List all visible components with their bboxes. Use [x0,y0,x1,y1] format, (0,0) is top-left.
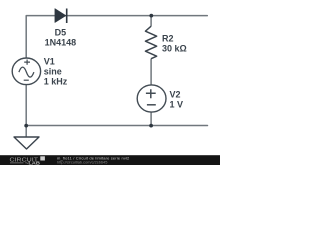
wire V2 bottom stem [150,112,152,126]
svg-text:30 kΩ: 30 kΩ [162,43,187,53]
voltage source V2 (DC) [137,85,166,112]
wire top rail with corner down to V1 top [26,16,207,58]
wire R2 to V2 stem [150,59,152,85]
wire V1 bottom stem to ground [25,85,27,138]
node junction bottom rail / V1-ground [24,124,28,128]
node junction top rail / R2 [149,14,153,18]
resistor R2 [145,26,156,59]
wire bottom rail [26,125,207,127]
svg-text:V1: V1 [44,57,55,67]
svg-text:http://circuitlab.com/c/2sb645: http://circuitlab.com/c/2sb645 [57,160,107,165]
footer logo CIRCUIT LAB [10,156,45,165]
svg-text:V2: V2 [170,89,181,99]
node junction bottom rail / V2 [149,124,153,128]
svg-text:1 V: 1 V [170,99,184,109]
svg-text:1N4148: 1N4148 [45,37,77,47]
svg-text:D5: D5 [55,27,67,37]
svg-text:1 kHz: 1 kHz [44,77,68,87]
svg-text:sine: sine [44,67,62,77]
footer bar [0,155,220,165]
wire R2 top stem [150,16,152,27]
svg-text:~LAB: ~LAB [25,161,40,165]
svg-text:R2: R2 [162,33,174,43]
diode D5 [55,9,67,24]
ground [14,137,39,149]
voltage source V1 (sine) [12,58,40,85]
